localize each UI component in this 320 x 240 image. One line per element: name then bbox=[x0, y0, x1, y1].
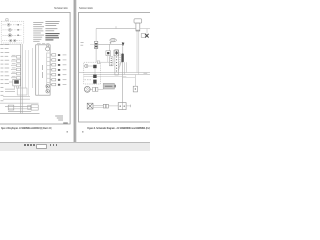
sensor S2 bbox=[46, 85, 49, 88]
svg-text:Bulletin: Bulletin bbox=[64, 6, 68, 10]
box top labels bbox=[37, 42, 49, 44]
junction box top rail bbox=[101, 61, 114, 63]
wire label column bbox=[1, 45, 10, 101]
svg-text:Bulletin: Bulletin bbox=[88, 6, 93, 10]
toolbar button: first page bbox=[24, 144, 26, 146]
junction box lower terminals bbox=[85, 79, 93, 81]
toolbar button: last page bbox=[33, 144, 35, 146]
connector wedge (dark) bbox=[122, 42, 125, 46]
resistor pack (gray box) bbox=[103, 83, 114, 89]
switch leads bbox=[136, 31, 138, 72]
legend dashed box bbox=[1, 21, 24, 43]
switch S5 bbox=[133, 86, 137, 92]
control unit box bbox=[36, 45, 50, 95]
connector strip J3 bbox=[109, 57, 113, 66]
svg-text:Technical: Technical bbox=[79, 6, 87, 10]
motor cores (dark dots) bbox=[8, 24, 15, 41]
node plus bbox=[110, 42, 112, 44]
feed wire top bbox=[0, 43, 21, 45]
relay K1 bbox=[13, 79, 21, 86]
cut mark (scissors) bbox=[145, 34, 148, 38]
left page number bbox=[67, 131, 69, 133]
component index list bbox=[33, 23, 44, 42]
viewer toolbar bbox=[0, 142, 150, 151]
auxiliary vertical wires bbox=[25, 50, 27, 88]
solenoid L1 (oval) bbox=[110, 39, 116, 42]
terminal rows under relay bbox=[5, 89, 15, 92]
warning text (bold) bbox=[45, 34, 59, 40]
bus wire pair bbox=[20, 44, 22, 113]
legend terminal marks bbox=[17, 24, 19, 36]
bus label bbox=[144, 72, 148, 74]
toolbar button: fit page bbox=[56, 144, 58, 146]
capacitor block bbox=[93, 87, 96, 91]
harness bundle (dark bar) bbox=[121, 54, 123, 63]
pin column bbox=[46, 53, 48, 92]
fuse output wire bbox=[98, 43, 122, 45]
motor M1 row1 bbox=[7, 23, 16, 42]
lamp unit box bbox=[118, 103, 126, 110]
fuse F0 above legend box bbox=[6, 19, 8, 21]
stub node bbox=[115, 26, 117, 28]
toolbar page input bbox=[36, 144, 48, 149]
splice connector CN5 bbox=[141, 34, 145, 38]
wedge wires bbox=[122, 47, 124, 54]
bottom wire rows bbox=[0, 97, 39, 112]
connector row stubs left of bus bbox=[11, 56, 20, 80]
drop wire to box bbox=[107, 56, 109, 63]
junction box J2 bbox=[17, 88, 27, 95]
notes paragraph bbox=[45, 21, 59, 30]
revision note block bbox=[55, 116, 63, 120]
inline connector pair bbox=[103, 104, 105, 108]
chassis ground plate bbox=[87, 103, 93, 109]
svg-text:Figure 1. Wiring Diagram - A1: Figure 1. Wiring Diagram - A1 S4/BERNINA… bbox=[1, 126, 52, 130]
relay contact (dark) bbox=[93, 65, 96, 68]
sensor S1 in box bbox=[46, 47, 50, 51]
tail wire bbox=[126, 105, 131, 107]
harness wires bbox=[93, 105, 103, 107]
svg-text:Technical: Technical bbox=[54, 6, 62, 10]
junction box JB bbox=[84, 62, 101, 84]
ground bus wire bbox=[0, 112, 40, 114]
ignition switch SW1 bbox=[134, 19, 142, 23]
connector strip J4 bbox=[115, 50, 118, 75]
page background bbox=[0, 0, 150, 150]
toolbar button: next page bbox=[30, 144, 32, 146]
pin row labels bbox=[63, 55, 67, 85]
page gap between spread pages bbox=[73, 0, 76, 142]
right page number bbox=[82, 131, 84, 133]
generator G1 (hatched circle) bbox=[84, 86, 90, 92]
terminal block T2 bbox=[31, 105, 38, 110]
right page content frame bbox=[79, 12, 150, 122]
left page content frame bbox=[0, 12, 70, 124]
toolbar button: zoom out bbox=[50, 144, 52, 146]
relay contact 3 (dark) bbox=[93, 80, 96, 84]
connector plugs (dark) bbox=[58, 54, 60, 86]
main bus wires bbox=[79, 72, 150, 74]
svg-text:Figure 2. Schematic Diagram -: Figure 2. Schematic Diagram - A1 S4/BERN… bbox=[87, 126, 150, 130]
pin rows right of control unit bbox=[50, 54, 66, 86]
control unit inner rail bbox=[38, 45, 40, 95]
terminal block T1 bbox=[8, 105, 14, 110]
harness fan bbox=[118, 51, 121, 71]
fuse F1 bbox=[95, 41, 98, 48]
pilot lamp bbox=[85, 64, 88, 67]
drawing number label bbox=[63, 122, 68, 124]
legend wires (dashes) bbox=[2, 25, 22, 41]
box label (rotated text) bbox=[42, 65, 44, 78]
toolbar button: prev page bbox=[27, 144, 29, 146]
toolbar button: zoom in bbox=[53, 144, 55, 146]
wire labels near frame bbox=[81, 42, 84, 44]
diode D1 bbox=[106, 51, 111, 56]
supply wire bbox=[96, 28, 136, 30]
relay contact 2 (dark) bbox=[93, 75, 96, 78]
sensor S3 bbox=[46, 90, 49, 93]
terminal block T0 bbox=[28, 105, 31, 109]
row wire labels bbox=[12, 55, 16, 76]
